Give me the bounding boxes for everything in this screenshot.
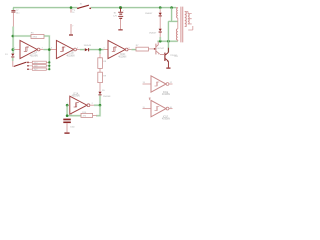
schmitt hysteresis mark gate3 — [112, 47, 117, 51]
inverter bubble gate1 — [37, 48, 40, 51]
wire IC1A feedback loop — [67, 105, 100, 116]
pin gate3 input — [104, 49, 108, 51]
transformer TR1 primary winding top — [177, 8, 178, 18]
wire halos (glow under all green wires) — [13, 8, 178, 116]
junction TIP collector — [167, 40, 170, 43]
wire gate1 input stub — [13, 49, 15, 51]
svg-text:1: 1 — [74, 10, 75, 12]
inverter bubble gate2 — [74, 48, 77, 51]
svg-text:R8: R8 — [103, 61, 107, 63]
capacitor C8 pin — [66, 123, 68, 132]
junction node feedback tap — [12, 35, 15, 38]
svg-text:1N4148: 1N4148 — [84, 45, 92, 47]
svg-text:40106N: 40106N — [162, 119, 170, 121]
schmitt hysteresis mark gate1 — [24, 47, 29, 51]
wire to feedback resistor — [13, 35, 31, 37]
resistor R1 pins — [29, 61, 49, 63]
junction diode chain bottom — [159, 40, 162, 43]
ground GND3 bar — [118, 29, 122, 30]
junction C8 tap — [66, 114, 69, 117]
pin R10 right — [93, 115, 97, 117]
wire feedback right to input node — [44, 36, 49, 69]
pin D4 cathode — [159, 33, 161, 38]
pin chain middle (D3 cathode to D4 anode) — [159, 16, 161, 29]
svg-text:12V: 12V — [113, 16, 117, 18]
junction IC1A input — [66, 104, 69, 107]
pin IC1A input — [67, 104, 70, 106]
svg-text:D1: D1 — [5, 54, 9, 56]
pin D3 anode — [159, 9, 161, 13]
pin IC1A output — [90, 104, 94, 106]
transformer core lines — [181, 7, 183, 43]
svg-text:7: 7 — [72, 25, 74, 27]
pin gate1 input — [15, 49, 20, 51]
wire TIP emitter to gnd — [167, 61, 169, 67]
junction dots selector — [48, 61, 50, 63]
inverter bubble IC1E — [166, 83, 169, 86]
svg-text:+: + — [123, 10, 125, 12]
pin gate1 output — [40, 49, 43, 51]
svg-text:IC1B: IC1B — [68, 53, 74, 55]
switch S2 pole pin — [13, 61, 14, 66]
schmitt hysteresis mark gate2 — [60, 47, 65, 51]
power VCC pin stub above IC1B — [70, 8, 72, 13]
wire chain top — [159, 8, 161, 10]
svg-text:IC1P: IC1P — [32, 53, 38, 55]
wire chain bottom — [159, 37, 161, 41]
diode D5 — [98, 92, 101, 95]
svg-text:1N4007: 1N4007 — [149, 33, 157, 35]
switch S2 contacts — [27, 62, 29, 64]
inverter IC1B triangle — [56, 40, 73, 58]
resistor R7 box — [136, 47, 148, 51]
transformer secondary pin stubs — [188, 14, 193, 31]
svg-text:BC547: BC547 — [158, 48, 165, 50]
transistor Q1 BC547 — [155, 44, 157, 55]
svg-text:100n: 100n — [70, 127, 75, 129]
inverter IC1A triangle — [70, 96, 87, 114]
ground GND1 bar — [69, 34, 73, 35]
svg-text:40106N: 40106N — [72, 96, 80, 98]
inverter IC1P gate1 triangle — [20, 40, 37, 58]
resistor R8 vertical box — [99, 54, 101, 58]
pin IC1F output — [169, 108, 173, 110]
resistor R5 feedback box — [31, 35, 44, 39]
wire D2 to gate3 — [89, 49, 104, 51]
svg-text:40106N: 40106N — [66, 55, 74, 57]
wire D5 to IC1A out — [99, 96, 101, 106]
junction node gate1 input — [12, 48, 15, 51]
svg-text:40106N: 40106N — [118, 57, 126, 59]
diode D1 — [11, 54, 14, 57]
inverter bubble gate3 — [125, 48, 128, 51]
capacitor C7 plates — [11, 9, 15, 12]
pin R9 to D5 — [99, 83, 101, 92]
power stub IC1E — [149, 98, 151, 100]
resistor R3 pins — [29, 68, 49, 70]
svg-text:10u: 10u — [16, 13, 20, 15]
capacitor C7 pin — [12, 13, 14, 27]
ground GND1 pin above IC1B — [70, 24, 72, 34]
inverter bubble IC1F — [166, 107, 169, 110]
transformer secondary winding — [185, 12, 187, 27]
inverter IC1F triangle — [151, 100, 166, 116]
transformer primary bottom stubs — [177, 21, 179, 41]
wire transformer center tap — [168, 8, 177, 53]
inverter IC1F pin input — [143, 108, 152, 110]
inverter bubble IC1A — [87, 104, 90, 107]
inverter IC1C triangle — [108, 40, 125, 58]
junction top rail at x71 — [70, 6, 73, 9]
pin gate2 output — [77, 49, 80, 51]
wire gate1 out to gate2 in — [43, 49, 50, 51]
resistor R2 box — [32, 65, 46, 67]
svg-text:1N4148: 1N4148 — [103, 96, 111, 98]
resistor R10 box — [81, 113, 93, 117]
capacitor C8 plates — [63, 119, 71, 121]
wire gate3 out to R7 — [131, 49, 136, 51]
battery B1 pin top — [120, 8, 122, 12]
svg-text:R9: R9 — [103, 76, 107, 78]
diode D4 — [159, 29, 162, 32]
diode D3 — [159, 13, 162, 16]
schmitt hysteresis mark IC1E — [154, 82, 159, 86]
wire collector rail y41 — [157, 40, 177, 42]
transformer primary top stub — [176, 8, 178, 22]
pin gate2 input — [51, 49, 57, 51]
transformer TR1 primary winding bottom — [176, 29, 177, 40]
resistor R2 pins — [29, 65, 49, 67]
junction IC1A output node — [99, 104, 102, 107]
resistor R9 vertical box — [99, 68, 101, 72]
junction diode chain top — [159, 6, 162, 9]
switch S1 right contact — [89, 7, 91, 9]
svg-text:1N4007: 1N4007 — [145, 13, 153, 15]
transformer secondary taps — [185, 12, 188, 27]
resistor R3 box — [32, 68, 46, 70]
wire IC1A out to node — [94, 104, 100, 106]
svg-text:S1: S1 — [80, 4, 83, 6]
transformer secondary second winding — [188, 14, 189, 24]
schmitt hysteresis mark IC1A — [74, 103, 79, 107]
resistor R7 right pin — [148, 48, 154, 50]
wire gate2 out to diode D2 — [80, 49, 85, 51]
switch S2 lever — [14, 62, 27, 66]
junction top rail right — [170, 6, 173, 9]
switch S1 left contact — [77, 7, 79, 9]
schmitt hysteresis mark IC1F — [154, 107, 159, 111]
pin IC1E output — [169, 83, 173, 85]
switch S1 lever — [78, 5, 89, 8]
svg-text:TR1: TR1 — [174, 56, 179, 58]
battery junction — [119, 6, 122, 9]
resistor R1 box — [32, 61, 46, 63]
pin gate3 output — [128, 49, 131, 51]
battery pin bottom — [120, 19, 122, 29]
svg-text:C7: C7 — [16, 10, 20, 12]
svg-text:D5: D5 — [102, 90, 105, 92]
inverter IC1E triangle — [151, 76, 166, 92]
diode D2 — [85, 48, 88, 51]
inverter IC1E pin input — [143, 83, 152, 85]
svg-text:B1: B1 — [114, 13, 117, 15]
battery B1 plates — [118, 11, 123, 14]
svg-text:40106N: 40106N — [30, 55, 38, 57]
svg-text:2: 2 — [92, 103, 94, 105]
svg-text:40106N: 40106N — [162, 94, 170, 96]
ground GND2 bar — [166, 68, 170, 69]
oscillator chain tap wire down — [99, 50, 101, 54]
ground GND4 bar — [64, 132, 69, 133]
junction node gate2 input — [48, 48, 51, 51]
wire left rail vertical — [12, 8, 15, 61]
wire top rail — [13, 7, 176, 9]
transistor Q2 TIP41C — [164, 53, 166, 61]
junction chain tap — [99, 48, 102, 51]
